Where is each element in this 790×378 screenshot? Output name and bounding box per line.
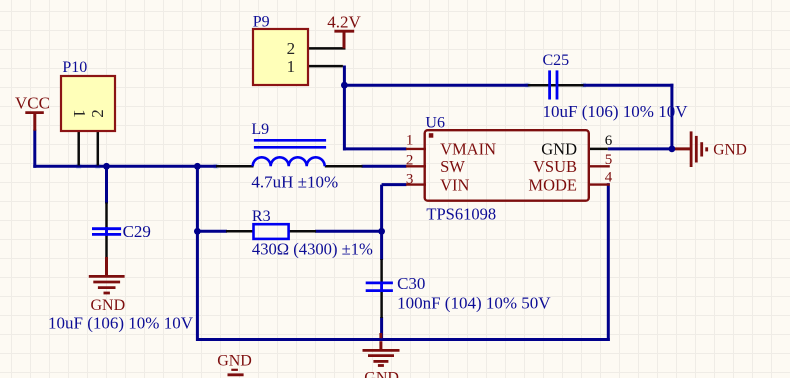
wire SW to L9 bbox=[362, 165, 407, 168]
svg-text:GND: GND bbox=[713, 142, 747, 159]
ground under C30 bbox=[363, 333, 400, 378]
svg-text:3: 3 bbox=[406, 172, 414, 188]
svg-text:P9: P9 bbox=[253, 14, 270, 31]
wire VMAIN horizontal to C25 bbox=[344, 84, 528, 87]
U6 pin1 stub bbox=[406, 148, 426, 150]
resistor R3 bbox=[254, 224, 289, 239]
C25 leads bbox=[528, 84, 584, 87]
capacitor C29 bbox=[92, 227, 121, 236]
svg-text:VCC: VCC bbox=[15, 94, 50, 113]
svg-text:L9: L9 bbox=[251, 121, 269, 138]
svg-text:TPS61098: TPS61098 bbox=[426, 204, 496, 223]
svg-text:430Ω (4300) ±1%: 430Ω (4300) ±1% bbox=[252, 239, 373, 258]
wire VMAIN branch down to pin1 bbox=[343, 85, 407, 150]
svg-text:6: 6 bbox=[605, 133, 613, 149]
wire MODE loop bbox=[608, 183, 610, 341]
junction P9 pin1 bbox=[341, 82, 348, 89]
svg-text:VMAIN: VMAIN bbox=[440, 140, 496, 159]
svg-text:10uF (106) 10% 10V: 10uF (106) 10% 10V bbox=[543, 102, 689, 121]
op-amp U6 body bbox=[425, 130, 589, 201]
U6 pin6 lead bbox=[589, 148, 608, 151]
svg-text:U6: U6 bbox=[425, 115, 445, 132]
svg-text:1: 1 bbox=[287, 57, 296, 76]
U6 pin3 stub bbox=[406, 183, 426, 185]
connector P10 bbox=[61, 59, 115, 131]
U6 pin4 stub bbox=[589, 183, 610, 185]
svg-text:C29: C29 bbox=[123, 222, 151, 241]
wire left bus vertical x197 bbox=[196, 166, 199, 341]
inductor L9 bbox=[253, 140, 326, 166]
C30 leads bbox=[380, 259, 383, 318]
U6 pin2 stub bbox=[406, 165, 426, 167]
L9 leads bbox=[216, 165, 363, 168]
svg-text:GND: GND bbox=[364, 370, 399, 378]
power VCC bbox=[15, 94, 50, 131]
svg-text:4: 4 bbox=[605, 170, 613, 186]
P10 pin leads bbox=[79, 131, 98, 166]
C29 lead bbox=[105, 202, 108, 258]
svg-text:SW: SW bbox=[440, 157, 465, 176]
svg-text:GND: GND bbox=[541, 140, 577, 159]
U6 pin5 stub bbox=[589, 165, 610, 167]
capacitor C25 bbox=[550, 70, 557, 99]
svg-text:5: 5 bbox=[605, 152, 613, 168]
wire VIN branch vertical bbox=[380, 185, 383, 341]
svg-text:C30: C30 bbox=[397, 274, 425, 293]
svg-text:100nF (104) 10% 50V: 100nF (104) 10% 50V bbox=[397, 293, 551, 312]
svg-text:VSUB: VSUB bbox=[533, 157, 577, 176]
svg-text:VIN: VIN bbox=[440, 175, 469, 194]
junction R3 left bbox=[194, 228, 201, 235]
svg-text:C25: C25 bbox=[543, 52, 570, 69]
pin endpoint markers bbox=[76, 83, 586, 169]
svg-text:1: 1 bbox=[70, 109, 89, 118]
connector P9 bbox=[253, 14, 308, 86]
R3 leads bbox=[226, 230, 316, 233]
junction GND/C25 bbox=[669, 146, 676, 153]
junction left bus bbox=[194, 163, 201, 170]
svg-text:R3: R3 bbox=[252, 208, 271, 225]
ground floating bottom left bbox=[217, 353, 252, 375]
power 4.2V bbox=[327, 12, 361, 48]
svg-text:1: 1 bbox=[406, 133, 414, 149]
P9 pin leads bbox=[308, 48, 346, 66]
svg-text:MODE: MODE bbox=[528, 175, 577, 194]
ground right of U6 bbox=[672, 131, 747, 167]
wire VCC net horizontal bbox=[33, 130, 217, 168]
svg-text:GND: GND bbox=[217, 353, 252, 370]
wire GND pin6 to symbol bbox=[608, 147, 673, 150]
wire R3 net left bbox=[197, 230, 227, 233]
wire C29 branch vertical bbox=[105, 166, 108, 203]
svg-text:4.2V: 4.2V bbox=[327, 12, 361, 31]
capacitor C30 bbox=[366, 282, 393, 293]
junction P10/C29 bbox=[103, 163, 110, 170]
svg-text:10uF (106) 10% 10V: 10uF (106) 10% 10V bbox=[48, 313, 194, 332]
svg-text:GND: GND bbox=[91, 297, 126, 314]
wire C25 right to corner bbox=[583, 84, 673, 150]
svg-text:4.7uH ±10%: 4.7uH ±10% bbox=[251, 172, 338, 191]
wire bottom rail bbox=[196, 338, 610, 341]
svg-text:2: 2 bbox=[287, 39, 296, 58]
ground under C29 bbox=[89, 257, 125, 314]
wire R3 net right bbox=[315, 230, 383, 233]
wire VIN pin3 horizontal bbox=[382, 183, 407, 186]
svg-text:2: 2 bbox=[406, 153, 414, 169]
svg-text:P10: P10 bbox=[62, 59, 87, 76]
junction R3/C30 bbox=[378, 228, 385, 235]
wire P9 pin1 down bbox=[343, 66, 346, 87]
svg-text:2: 2 bbox=[88, 109, 107, 118]
